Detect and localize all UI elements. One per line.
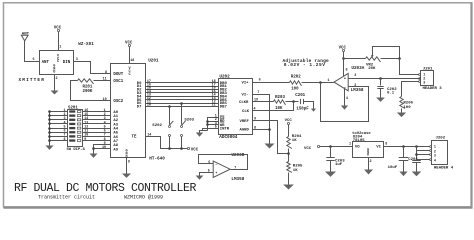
svg-text:TE: TE [132, 136, 137, 140]
wire U201 D4 to U202 DB4 [146, 96, 219, 98]
VCC terminal of TE bus [187, 147, 189, 149]
svg-text:CLKR: CLKR [239, 101, 249, 105]
wire S201 pin 15 to U201 A1 pin 2 [83, 115, 111, 117]
svg-text:R206: R206 [403, 101, 413, 105]
resistor R204 1K [287, 137, 292, 149]
resistor R206 100 [400, 97, 405, 109]
wire R203 to clock node [286, 101, 299, 103]
svg-text:WZ-X01: WZ-X01 [78, 42, 94, 47]
svg-text:0.1: 0.1 [387, 91, 395, 95]
wire U201 TE pin 14 to VCC bus [146, 137, 188, 149]
wire S201 pin 3 to ground bus [50, 119, 68, 121]
wire U201 D3 to U202 DB3 [146, 92, 219, 94]
svg-text:VREF: VREF [240, 120, 250, 124]
svg-text:1: 1 [349, 143, 351, 147]
svg-text:CLK: CLK [242, 110, 250, 114]
ground at U203B pin 5 [196, 176, 204, 180]
svg-text:D: D [367, 153, 369, 157]
svg-text:VCC: VCC [125, 42, 133, 46]
svg-text:ANT: ANT [42, 61, 50, 65]
wire U201 D5 to U202 DB5 [146, 99, 219, 101]
wire U201 D6 to U202 DB6 [146, 103, 219, 105]
divider midpoint node [288, 149, 290, 162]
wire U202 VI+ pin 6 to R202 [253, 82, 290, 84]
capacitor C201 150pF [301, 99, 304, 104]
svg-text:D7: D7 [137, 106, 142, 110]
wire op-amp non-inverting input pin 3 to J201 pin 2 net [349, 78, 421, 80]
svg-text:−: − [215, 163, 217, 167]
svg-text:6: 6 [208, 161, 210, 165]
junction node D7/S202 [168, 105, 171, 108]
svg-text:A9: A9 [113, 148, 118, 152]
svg-text:9: 9 [254, 118, 256, 122]
ground at U201 pin 9 [126, 158, 128, 174]
svg-text:+: + [215, 172, 217, 176]
svg-text:LM358: LM358 [231, 177, 244, 182]
wire S201 pin 2 to ground bus [50, 115, 68, 117]
svg-text:C204: C204 [408, 158, 418, 162]
wire J201 pin 3 to R206 [402, 82, 419, 97]
svg-text:R202: R202 [291, 76, 301, 80]
ground at CS/RD/WR/INTR [200, 131, 208, 133]
wire S201 pin 10 to U201 A6 pin 7 [83, 136, 111, 138]
svg-text:SW DIP-8: SW DIP-8 [67, 148, 86, 152]
svg-text:VCC: VCC [304, 147, 312, 151]
svg-text:RF DUAL DC MOTORS CONTROLLER: RF DUAL DC MOTORS CONTROLLER [14, 182, 197, 195]
feedback wire U203B output pin 7 to inverting input pin 6 [199, 155, 248, 170]
svg-text:ADC0804: ADC0804 [219, 135, 237, 140]
svg-text:14: 14 [147, 133, 151, 137]
ground at C201 [311, 109, 316, 112]
svg-text:R203: R203 [275, 96, 285, 100]
wire U201 D1 to U202 DB1 [146, 86, 219, 88]
svg-text:8: 8 [254, 126, 256, 130]
svg-text:VI: VI [376, 146, 381, 150]
svg-text:AGND: AGND [240, 129, 250, 133]
resistor R202 100 [290, 81, 302, 86]
wire S201 pin 4 to ground bus [50, 123, 68, 125]
svg-text:100: 100 [291, 87, 299, 91]
resistor R205 1K [287, 162, 292, 173]
svg-text:5: 5 [215, 125, 217, 129]
svg-text:VI-: VI- [242, 93, 249, 97]
wire S201 pin 6 to ground bus [50, 132, 68, 134]
wire R202 to op-amp U203A output pin 1 [302, 82, 335, 84]
svg-text:4: 4 [254, 108, 256, 112]
ground at A8/A9 [90, 154, 98, 158]
svg-text:3: 3 [354, 74, 356, 78]
transmitter module WZ-X01 [40, 51, 74, 75]
op-amp feedback output to inverting input pin 2 [321, 83, 369, 122]
wire VCC node to VR2 [344, 58, 366, 60]
svg-text:WZMICRO @1999: WZMICRO @1999 [124, 195, 163, 201]
wire S201 pin 8 to ground bus [50, 140, 68, 142]
wire U201 D7 to U202 DB7 [146, 106, 219, 108]
resistor R203 10K [274, 100, 286, 105]
ground at VI-/AGND [265, 144, 275, 149]
wire U202 VREF pin 9 to divider midpoint [253, 121, 289, 154]
svg-text:LM358: LM358 [351, 88, 364, 93]
svg-text:U203B: U203B [231, 153, 244, 158]
junction node D6/S203 [180, 102, 183, 105]
ground at WZ-X01 pin 2 [54, 75, 56, 91]
svg-text:10uF: 10uF [388, 166, 398, 170]
svg-text:S203: S203 [184, 118, 194, 122]
svg-text:C201: C201 [295, 94, 305, 98]
svg-text:200K: 200K [83, 90, 93, 94]
ground below R206 [401, 109, 403, 113]
wire S201 pin 16 to U201 A0 pin 1 [83, 111, 111, 113]
svg-text:2: 2 [56, 77, 58, 81]
capacitor C202 0.1 on op-amp input net [379, 77, 382, 80]
wire S201 pin 14 to U201 A2 pin 3 [83, 119, 111, 121]
wire U202 AGND pin 8 to ground [253, 130, 270, 144]
svg-text:2: 2 [370, 160, 372, 164]
ADC U202 ADC0804 [219, 79, 253, 135]
svg-text:100: 100 [403, 106, 411, 110]
wire S201 pin 12 to U201 A4 pin 5 [83, 128, 111, 130]
ground at C204 [412, 172, 422, 177]
svg-text:DOUT: DOUT [113, 73, 123, 77]
capacitor C204 [416, 147, 418, 161]
svg-text:1: 1 [59, 46, 61, 50]
svg-text:HEADER 3: HEADER 3 [423, 87, 443, 91]
svg-text:6: 6 [33, 58, 35, 62]
encoder U201 HT-640 [111, 64, 146, 158]
wire S201 pin 5 to ground bus [50, 128, 68, 130]
wire U201 D0 to U202 DB0 [146, 82, 219, 84]
wire J202 pin 4 stub [417, 159, 430, 161]
wire U203B non-inverting input pin 5 to ground [200, 173, 214, 176]
svg-text:DB7: DB7 [220, 106, 228, 110]
svg-text:S202: S202 [152, 124, 162, 128]
wire S201 pin 7 to ground bus [50, 136, 68, 138]
ground at C203 [325, 172, 336, 177]
wire VCC terminal to U204 VO pin 1 [320, 146, 353, 148]
wire U202 VI- pin 7 to analog ground [253, 95, 270, 130]
svg-text:VI+: VI+ [242, 81, 250, 85]
wire clock node to U202 CLK pin 4 [253, 102, 294, 111]
svg-text:150pF: 150pF [296, 107, 309, 111]
svg-text:19: 19 [254, 99, 258, 103]
svg-text:DIN: DIN [63, 61, 71, 65]
svg-text:C: C [128, 73, 130, 77]
wire U201 D2 to U202 DB2 [146, 89, 219, 91]
svg-text:4: 4 [434, 159, 436, 163]
svg-text:U202: U202 [219, 74, 230, 79]
svg-text:OSC1: OSC1 [113, 80, 123, 84]
svg-text:20K: 20K [368, 67, 376, 71]
wire S201 pin 11 to U201 A5 pin 6 [83, 132, 111, 134]
svg-text:3: 3 [76, 58, 78, 62]
svg-text:U201: U201 [148, 58, 159, 63]
resistor R201 200K between OSC1 and OSC2 [71, 81, 111, 101]
svg-text:1uF: 1uF [335, 163, 343, 167]
wire J202 pin 3 to C204 net [417, 154, 430, 156]
svg-text:9: 9 [128, 161, 130, 165]
svg-text:8: 8 [105, 71, 107, 75]
svg-text:9: 9 [84, 138, 86, 142]
svg-text:3: 3 [434, 154, 436, 158]
svg-text:8: 8 [346, 69, 348, 73]
svg-text:5: 5 [208, 170, 210, 174]
wire S201 pin 1 to ground bus [50, 111, 68, 113]
wire C201 to ground [304, 102, 314, 109]
svg-text:HEADER 4: HEADER 4 [434, 166, 454, 170]
svg-text:HT-640: HT-640 [149, 157, 165, 162]
svg-text:8: 8 [64, 138, 66, 142]
svg-text:7: 7 [234, 166, 236, 170]
svg-text:R205: R205 [293, 164, 303, 168]
ground at 10uF capacitor [399, 172, 407, 177]
wire U204 VI pin 8 to J202 pin 1 [384, 146, 430, 148]
svg-text:3: 3 [423, 81, 425, 85]
ground at C202 [376, 98, 385, 102]
svg-text:C: C [57, 60, 59, 64]
wire U202 INTR pin 5 to ground bus [203, 129, 219, 131]
wire antenna to XMITTER ANT pin [25, 41, 40, 62]
svg-text:1: 1 [434, 146, 436, 150]
svg-text:1: 1 [327, 79, 329, 83]
ground bus left of S201 [49, 112, 51, 146]
wire S201 pin 13 to U201 A3 pin 4 [83, 123, 111, 125]
svg-text:D: D [53, 70, 55, 74]
svg-text:1K: 1K [292, 139, 297, 143]
wire VCC node to op-amp pin 8 [343, 59, 345, 77]
ground at U204 GND pin 2 [368, 158, 370, 170]
wire J202 pin 2 stub [417, 150, 430, 152]
svg-text:4: 4 [346, 97, 348, 101]
svg-text:8: 8 [385, 143, 387, 147]
wire VR2 right end to wiper node [381, 58, 400, 60]
svg-text:XMITTER: XMITTER [19, 78, 46, 83]
svg-text:11: 11 [212, 104, 216, 108]
svg-text:1K: 1K [293, 169, 298, 173]
svg-text:6: 6 [259, 79, 261, 83]
ground below R205 [288, 173, 290, 185]
svg-text:U203A: U203A [351, 66, 364, 71]
svg-text:18: 18 [130, 59, 134, 63]
potentiometer VR2 20K [366, 57, 381, 62]
svg-text:INTR: INTR [220, 127, 230, 131]
svg-text:11: 11 [103, 78, 107, 82]
capacitor 10uF input filter [403, 147, 405, 158]
svg-text:0.02V - 1.25V: 0.02V - 1.25V [284, 62, 326, 68]
svg-text:10: 10 [103, 98, 107, 102]
wire WZ-X01 DIN pin 3 to U201 DOUT pin 8 [74, 62, 111, 74]
svg-text:VO: VO [355, 146, 360, 150]
svg-text:7: 7 [257, 91, 259, 95]
wire S201 pin 9 to U201 A7 pin 8 [83, 140, 111, 142]
svg-text:+: + [344, 77, 346, 81]
wire U202 CLKR pin 19 to R203 [253, 101, 274, 103]
wire VR2 node to J201 pin 1 [400, 59, 419, 75]
wires U202 CS pin 1, RD pin 2, WR pin 3 tied [208, 118, 219, 131]
ground at op-amp pin 4 [344, 89, 346, 106]
svg-text:Transmitter circuit: Transmitter circuit [38, 195, 95, 201]
svg-text:10: 10 [102, 146, 106, 150]
svg-text:VCC: VCC [191, 149, 199, 153]
capacitor C203 1uF [330, 147, 332, 158]
svg-text:2: 2 [354, 84, 356, 88]
wires U201 A8 pin 9 and A9 pin 10 to ground [94, 145, 111, 149]
svg-text:OSC2: OSC2 [113, 100, 123, 104]
svg-text:10: 10 [147, 104, 151, 108]
